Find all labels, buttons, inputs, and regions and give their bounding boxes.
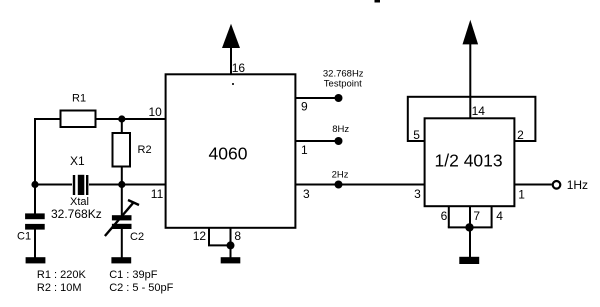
wire left rail vertical: [34, 118, 36, 214]
svg-text:5: 5: [413, 128, 420, 142]
resistor R1: [61, 111, 96, 128]
svg-text:11: 11: [151, 187, 164, 201]
node junction dot left rail / crystal: [31, 181, 38, 188]
svg-text:4: 4: [496, 209, 503, 223]
op-amp U1 4060 IC body: [166, 74, 296, 228]
resistor R2: [113, 133, 131, 167]
svg-text:32.768Kz: 32.768Kz: [51, 207, 102, 221]
svg-text:14: 14: [472, 104, 486, 118]
node 2Hz dot: [335, 181, 343, 189]
wire crystal right to pin 11: [89, 184, 166, 186]
svg-text:1/2 4013: 1/2 4013: [435, 151, 503, 171]
svg-text:C2 : 5 - 50pF: C2 : 5 - 50pF: [109, 282, 173, 294]
power arrow 4060 triangle: [222, 24, 240, 48]
wire pin 9 testpoint: [295, 97, 338, 99]
ground C1: [26, 257, 46, 263]
svg-text:3: 3: [414, 187, 421, 201]
svg-text:R1 : 220K: R1 : 220K: [37, 269, 87, 281]
svg-text:1: 1: [301, 143, 308, 157]
svg-text:7: 7: [473, 209, 480, 223]
artifact mark top edge: [375, 0, 381, 3]
wire C2 to ground: [121, 229, 123, 258]
wire pin 7 to ground: [469, 206, 471, 258]
wire pin 12 horizontal: [208, 244, 231, 246]
svg-text:C2: C2: [130, 231, 144, 243]
svg-text:C1: C1: [17, 231, 31, 243]
wire R2 bottom stem: [121, 166, 123, 185]
crystal X1: [74, 175, 87, 195]
wire pin 1 8Hz: [295, 140, 338, 142]
capacitor C2 (variable): [105, 200, 139, 236]
ground 4013: [459, 257, 479, 264]
node junction dot R2/C2/pin11: [118, 181, 125, 188]
wire pin 1 output: [514, 184, 551, 186]
node 8Hz dot: [335, 137, 343, 145]
wire 4013 outer bracket pins 5/2/14: [408, 97, 536, 141]
svg-text:6: 6: [441, 209, 448, 223]
op-amp U2 4013 IC body: [425, 118, 515, 206]
svg-text:4060: 4060: [209, 144, 248, 164]
wire crystal left: [35, 184, 72, 186]
node testpoint 32.768Hz dot: [335, 94, 343, 102]
node output terminal circle: [553, 181, 561, 189]
svg-text:R2 : 10M: R2 : 10M: [37, 282, 82, 294]
wire pin 3 2Hz to 4013 pin 3: [295, 184, 424, 186]
node junction dot pin 12/8: [227, 241, 235, 249]
wire C2 top stem: [121, 185, 123, 217]
capacitor C1: [25, 213, 45, 229]
svg-text:1Hz: 1Hz: [567, 178, 588, 192]
wire C1 to ground: [34, 230, 36, 259]
svg-text:3: 3: [303, 187, 310, 201]
svg-text:2Hz: 2Hz: [332, 169, 349, 180]
svg-text:10: 10: [149, 105, 163, 119]
node junction dot R1/R2: [118, 115, 125, 122]
svg-text:12: 12: [193, 229, 207, 243]
svg-text:16: 16: [232, 61, 246, 75]
svg-text:C1 : 39pF: C1 : 39pF: [109, 269, 158, 281]
wire pin 8 vertical: [230, 228, 232, 258]
svg-text:X1: X1: [70, 154, 85, 168]
power arrow 4013 triangle: [463, 20, 479, 45]
svg-text:9: 9: [301, 100, 308, 114]
ground C2: [111, 257, 131, 263]
wire R1 left: [34, 118, 62, 120]
power arrow 4060 stem pin 16: [230, 47, 232, 74]
svg-text:8Hz: 8Hz: [332, 124, 349, 135]
wire pin 6 vertical: [448, 206, 450, 227]
wire pins 6-4 bottom bracket: [448, 226, 493, 228]
ground 4060: [221, 257, 241, 263]
power arrow 4013 stem pin 14: [469, 44, 471, 119]
svg-text:1: 1: [518, 188, 525, 202]
svg-text:R2: R2: [138, 144, 152, 156]
svg-text:Testpoint: Testpoint: [324, 79, 362, 90]
svg-text:8: 8: [234, 229, 241, 243]
svg-text:R1: R1: [72, 93, 86, 105]
wire R2 top stem: [121, 119, 123, 134]
svg-text:2: 2: [517, 128, 524, 142]
wire pin 4 vertical: [491, 206, 493, 227]
artifact dot inside 4060: [232, 83, 234, 85]
node junction dot pin 7: [465, 223, 473, 231]
wire pin 12 vertical: [208, 228, 210, 246]
wire R1 right to pin 10: [95, 118, 166, 120]
